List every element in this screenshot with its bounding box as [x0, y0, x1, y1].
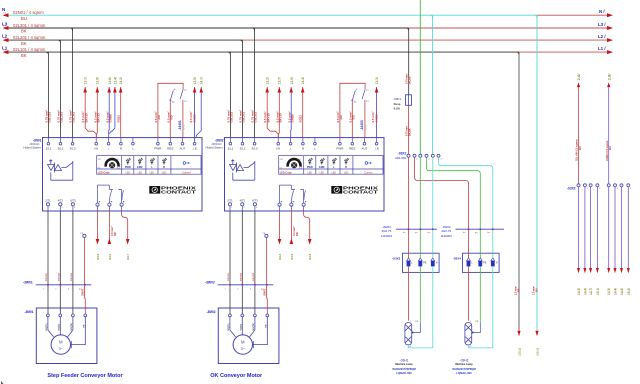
svg-text:02L101 / 4 sqmm: 02L101 / 4 sqmm — [13, 47, 46, 52]
terminal strip -03X2 — [567, 184, 632, 191]
svg-text:BU: BU — [536, 288, 539, 292]
svg-text:BK,BK: BK,BK — [409, 128, 412, 136]
svg-text:2.6/: 2.6/ — [576, 73, 581, 81]
control wires above -3N01 — [81, 83, 196, 137]
svg-text:14.4/: 14.4/ — [301, 77, 305, 84]
wire X1 to lamp2 PE — [427, 157, 481, 253]
control wires above -3N02 — [263, 83, 378, 137]
svg-text:14.4/: 14.4/ — [614, 288, 618, 295]
svg-text:3G0.75: 3G0.75 — [381, 229, 391, 233]
svg-text:13.9/: 13.9/ — [290, 77, 294, 84]
svg-text:-3N02: -3N02 — [215, 139, 224, 143]
svg-text:1119003: 1119003 — [441, 234, 453, 238]
connector -03X3 with lamp -03H1 — [392, 253, 439, 375]
svg-text:L3 /: L3 / — [598, 22, 606, 27]
svg-text:-03X4: -03X4 — [453, 256, 461, 260]
svg-text:-14403: -14403 — [360, 120, 364, 130]
svg-text:BK: BK — [518, 288, 521, 292]
svg-text:gn: gn — [415, 232, 418, 234]
X2 drop reference labels — [577, 288, 631, 295]
cable -3W02 — [205, 281, 215, 285]
svg-text:-3W02: -3W02 — [205, 281, 215, 285]
wire fuse to X1 — [404, 105, 411, 154]
wire N drop to X1 — [430, 15, 433, 154]
svg-text:13.3/: 13.3/ — [375, 77, 379, 84]
svg-text:02L301 / 4 sqmm: 02L301 / 4 sqmm — [13, 23, 46, 28]
node L3 bus — [2, 22, 613, 34]
label -03H1 — [400, 358, 409, 362]
wire X1 to lamp2 N — [439, 157, 493, 253]
page corner mark — [1, 381, 4, 384]
svg-text:OK Conveyor Motor: OK Conveyor Motor — [210, 373, 263, 379]
svg-text:1: 1 — [416, 158, 418, 160]
wiring below -3N01 — [36, 211, 130, 364]
svg-text:BK: BK — [21, 41, 27, 46]
svg-text:13.5/: 13.5/ — [193, 77, 197, 84]
svg-text:14.3/: 14.3/ — [607, 288, 611, 295]
reference arrows labels below -3N01 — [96, 253, 312, 260]
svg-text:bu: bu — [488, 232, 491, 234]
svg-text:14.7/: 14.7/ — [589, 288, 593, 295]
svg-text:14.1/: 14.1/ — [200, 77, 204, 84]
node N bus — [2, 7, 613, 21]
svg-text:-3N01: -3N01 — [33, 139, 42, 143]
wiring below -3N02 — [218, 211, 312, 364]
svg-text:L1 /: L1 / — [598, 46, 606, 51]
svg-text:-3M01: -3M01 — [24, 310, 33, 314]
svg-text:-03H1: -03H1 — [400, 358, 409, 362]
svg-text:-03H2: -03H2 — [460, 358, 469, 362]
svg-text:13.8/: 13.8/ — [108, 77, 112, 84]
svg-text:bu: bu — [428, 232, 431, 234]
svg-text:14.2/: 14.2/ — [119, 77, 123, 84]
cable -3W01 — [23, 281, 33, 285]
wire X1 to lamp1 L — [408, 157, 410, 253]
svg-text:/14.2: /14.2 — [364, 124, 368, 130]
svg-text:L2 /: L2 / — [598, 34, 606, 39]
contact -14401 label — [178, 120, 186, 130]
svg-text:02L201 / 4 sqmm: 02L201 / 4 sqmm — [13, 35, 46, 40]
svg-text:BK: BK — [21, 53, 27, 58]
wire L3 drop to fuse — [405, 28, 412, 95]
svg-text:/13.5: /13.5 — [108, 253, 112, 260]
svg-text:bn: bn — [463, 232, 466, 234]
second reset wire above -3N01 — [109, 87, 117, 134]
X2 drop wires — [579, 187, 629, 268]
svg-text:13.1/: 13.1/ — [84, 77, 88, 84]
svg-text:/13.3: /13.3 — [278, 253, 282, 260]
label -03X4 — [453, 256, 461, 260]
riser 02N01 — [605, 73, 612, 184]
svg-text:(15.1): (15.1) — [517, 348, 521, 355]
svg-text:-3W01: -3W01 — [23, 281, 33, 285]
node L2 bus — [2, 34, 613, 46]
svg-text:13.2/: 13.2/ — [266, 77, 270, 84]
svg-text:-03F1: -03F1 — [393, 97, 401, 101]
svg-text:BU: BU — [608, 146, 612, 150]
svg-text:/13.2: /13.2 — [96, 253, 100, 260]
contact -14403 label — [360, 120, 368, 130]
svg-text:bn: bn — [403, 232, 406, 234]
svg-text:(15.1): (15.1) — [535, 348, 539, 355]
svg-text:13.7/: 13.7/ — [278, 77, 282, 84]
wire N drop to bottom — [531, 15, 539, 355]
label -3N02 — [215, 139, 224, 143]
wire X1 to lamp1 PE — [419, 157, 421, 253]
wire X1 to lamp2 L — [415, 157, 469, 253]
svg-text:-03X3: -03X3 — [392, 256, 400, 260]
svg-text:-03X2: -03X2 — [567, 186, 576, 190]
terminal strip -03X1 — [395, 152, 442, 161]
cable -3W03 — [381, 225, 437, 238]
svg-text:0.5A: 0.5A — [394, 107, 401, 111]
cross reference labels above -3N02 — [266, 77, 379, 84]
svg-text:02N01 / 4 sqmm: 02N01 / 4 sqmm — [13, 10, 44, 15]
svg-text:BU: BU — [578, 146, 582, 150]
svg-text:/13.7: /13.7 — [126, 253, 130, 260]
svg-text:14.3/: 14.3/ — [577, 288, 581, 295]
svg-text:-14401: -14401 — [178, 120, 182, 130]
svg-text:-3M02: -3M02 — [206, 310, 215, 314]
riser 02L+09 — [575, 73, 582, 184]
svg-text:3: 3 — [440, 158, 442, 160]
svg-text:gn: gn — [475, 232, 478, 234]
connector -03X4 with lamp -03H2 — [452, 253, 499, 375]
svg-text:15.2/: 15.2/ — [627, 288, 631, 295]
motor -3M01 label — [24, 310, 33, 314]
caption step feeder conveyor motor — [47, 373, 123, 379]
svg-text:3: 3 — [617, 188, 619, 190]
svg-text:281-681: 281-681 — [395, 156, 406, 160]
caption ok conveyor motor — [210, 373, 263, 379]
svg-text:15.1/: 15.1/ — [596, 288, 600, 295]
svg-text:1119003: 1119003 — [381, 234, 393, 238]
label -3N01 — [33, 139, 42, 143]
extra pe wire above -3N01 — [196, 87, 203, 138]
svg-text:14.5/: 14.5/ — [620, 288, 624, 295]
svg-text:14.4/: 14.4/ — [583, 288, 587, 295]
cross reference labels above -3N01 — [84, 77, 204, 84]
svg-text:13.6/: 13.6/ — [96, 77, 100, 84]
svg-text:2: 2 — [428, 158, 430, 160]
wire green from page top — [419, 0, 421, 154]
svg-text:/13.6: /13.6 — [290, 253, 294, 260]
node L1 bus — [2, 46, 613, 58]
cable -3W04 — [441, 225, 504, 238]
svg-text:BU: BU — [21, 16, 27, 21]
hybrid starter -3N01 — [24, 28, 202, 211]
fuse -03F1 — [393, 95, 411, 111]
label -03H2 — [460, 358, 469, 362]
svg-text:4: 4 — [630, 188, 632, 190]
svg-text:13.4/: 13.4/ — [114, 77, 118, 84]
label -03X3 — [392, 256, 400, 260]
svg-text:Fuse: Fuse — [394, 102, 401, 106]
svg-text:2: 2 — [599, 188, 601, 190]
svg-text:Step Feeder Conveyor Motor: Step Feeder Conveyor Motor — [47, 373, 123, 379]
motor -3M02 label — [206, 310, 215, 314]
wire X1 to lamp1 N — [432, 157, 434, 253]
svg-text:/13.8: /13.8 — [308, 253, 312, 260]
hybrid starter -3N02 — [206, 28, 384, 211]
svg-text:BK: BK — [21, 29, 27, 34]
svg-text:BK,BK: BK,BK — [409, 76, 412, 84]
svg-text:N /: N / — [599, 9, 605, 14]
svg-text:1: 1 — [587, 188, 589, 190]
svg-text:3G0.75: 3G0.75 — [441, 229, 451, 233]
wire L1 drop to bottom — [513, 52, 521, 355]
svg-text:N: N — [2, 7, 6, 12]
svg-text:/14.2: /14.2 — [182, 124, 186, 130]
svg-text:2.8/: 2.8/ — [606, 73, 611, 81]
